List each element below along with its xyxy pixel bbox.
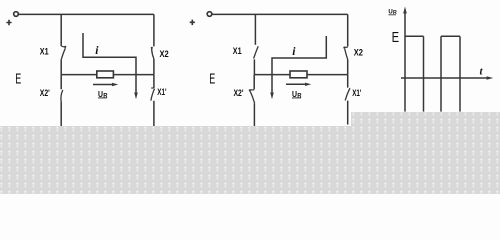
wire: left branch middle segment xyxy=(253,59,255,74)
switch X1' blade xyxy=(151,89,155,101)
waveform pulse 2 top xyxy=(441,35,460,37)
UR reference arrow circuit 2 xyxy=(286,83,306,85)
switch X1' blade circuit 2 xyxy=(345,88,350,100)
wire: right branch bottom segment xyxy=(153,101,155,126)
wire: right branch upper segment (to switch X2) xyxy=(347,14,349,46)
svg-text:E: E xyxy=(15,71,21,88)
wire: left branch bottom segment xyxy=(60,102,62,126)
svg-text:X1: X1 xyxy=(40,47,49,58)
wire: right branch bottom segment xyxy=(347,101,349,125)
switch X1 blade xyxy=(61,48,65,59)
plus polarity symbol circuit 1 xyxy=(6,20,11,25)
switch X2 contact dot xyxy=(151,47,153,49)
wire: right branch middle segment xyxy=(347,59,349,74)
svg-text:X2: X2 xyxy=(354,47,363,58)
wire: left branch middle segment (X1 to node) xyxy=(60,60,62,75)
switch X1 top hook xyxy=(61,45,65,48)
switch X2' contact dot circuit 2 xyxy=(249,89,251,91)
switch X1' top hook xyxy=(151,87,154,89)
UR label underline circuit 2 xyxy=(292,97,301,99)
waveform edge falling 1 xyxy=(423,36,425,111)
wire: left branch upper segment (to switch X1) xyxy=(254,14,256,44)
switch X1 contact dot xyxy=(64,46,66,48)
UR arrowhead circuit 1 xyxy=(112,83,118,86)
wire: middle rail circuit 1 xyxy=(61,74,154,76)
wire: middle rail circuit 2 xyxy=(254,74,348,76)
wire: right branch lower segment (to switch X1') xyxy=(347,75,349,88)
waveform pulse 1 top xyxy=(405,35,424,37)
waveform edge falling 2 xyxy=(459,36,461,111)
current arrowhead i circuit 2 xyxy=(270,93,274,100)
switch X2' blade circuit 2 xyxy=(250,91,254,103)
axis t xyxy=(401,77,488,79)
gray hatched region right part xyxy=(351,112,500,194)
current loop wire i circuit 1 xyxy=(83,33,136,93)
switch X1 blade circuit 2 xyxy=(254,46,259,58)
svg-text:R: R xyxy=(103,93,108,99)
current loop wire i circuit 2 xyxy=(272,36,326,93)
UR label underline circuit 1 xyxy=(98,97,107,99)
wire: top rail circuit 1 xyxy=(19,13,154,15)
svg-text:X2': X2' xyxy=(234,88,244,99)
wire: left branch lower segment (to switch X2') xyxy=(253,75,255,90)
plus polarity symbol circuit 2 xyxy=(190,20,195,26)
waveform edge rising 2 xyxy=(440,36,442,111)
switch X2 blade circuit 2 xyxy=(345,49,348,60)
switch X2 contact dot circuit 2 xyxy=(343,47,345,49)
terminal T1 (input terminal circle) xyxy=(14,12,19,17)
current arrowhead i circuit 1 xyxy=(134,93,138,100)
wire: left branch lower segment (node to switch X2') xyxy=(60,75,62,90)
svg-text:X2': X2' xyxy=(40,88,50,99)
switch X2 top hook circuit 2 xyxy=(344,46,347,48)
wire: right branch middle segment (X2 to node) xyxy=(153,59,155,75)
axis t arrowhead xyxy=(487,76,494,79)
switch X2' top hook circuit 2 xyxy=(250,89,254,91)
resistor R1 body xyxy=(97,71,114,78)
svg-text:X1': X1' xyxy=(352,88,361,99)
axis Y arrowhead xyxy=(403,7,407,14)
wire: right branch lower segment (node to switch X1') xyxy=(153,75,155,88)
UR reference arrow circuit 1 xyxy=(93,84,113,86)
wire: right branch upper segment (to switch X2) xyxy=(153,14,155,46)
switch X2' blade xyxy=(61,90,63,102)
wire: left branch upper segment (to switch X1) xyxy=(60,14,62,46)
label UR plot underline xyxy=(388,14,396,16)
axis Y (UR axis) xyxy=(404,13,406,112)
svg-text:X1: X1 xyxy=(233,46,242,57)
gray hatched region left part xyxy=(0,126,351,194)
switch X2 blade xyxy=(152,49,154,59)
wire: top rail circuit 2 xyxy=(212,13,348,15)
resistor R2 body xyxy=(290,71,307,78)
svg-text:E: E xyxy=(209,71,215,88)
terminal T2 (input terminal circle) xyxy=(207,12,212,17)
svg-text:X1': X1' xyxy=(157,87,166,98)
svg-text:R: R xyxy=(297,93,302,99)
wire: left branch bottom segment xyxy=(253,103,255,126)
svg-text:E: E xyxy=(392,29,400,46)
svg-text:X2: X2 xyxy=(160,49,169,60)
UR arrowhead circuit 2 xyxy=(305,83,311,86)
